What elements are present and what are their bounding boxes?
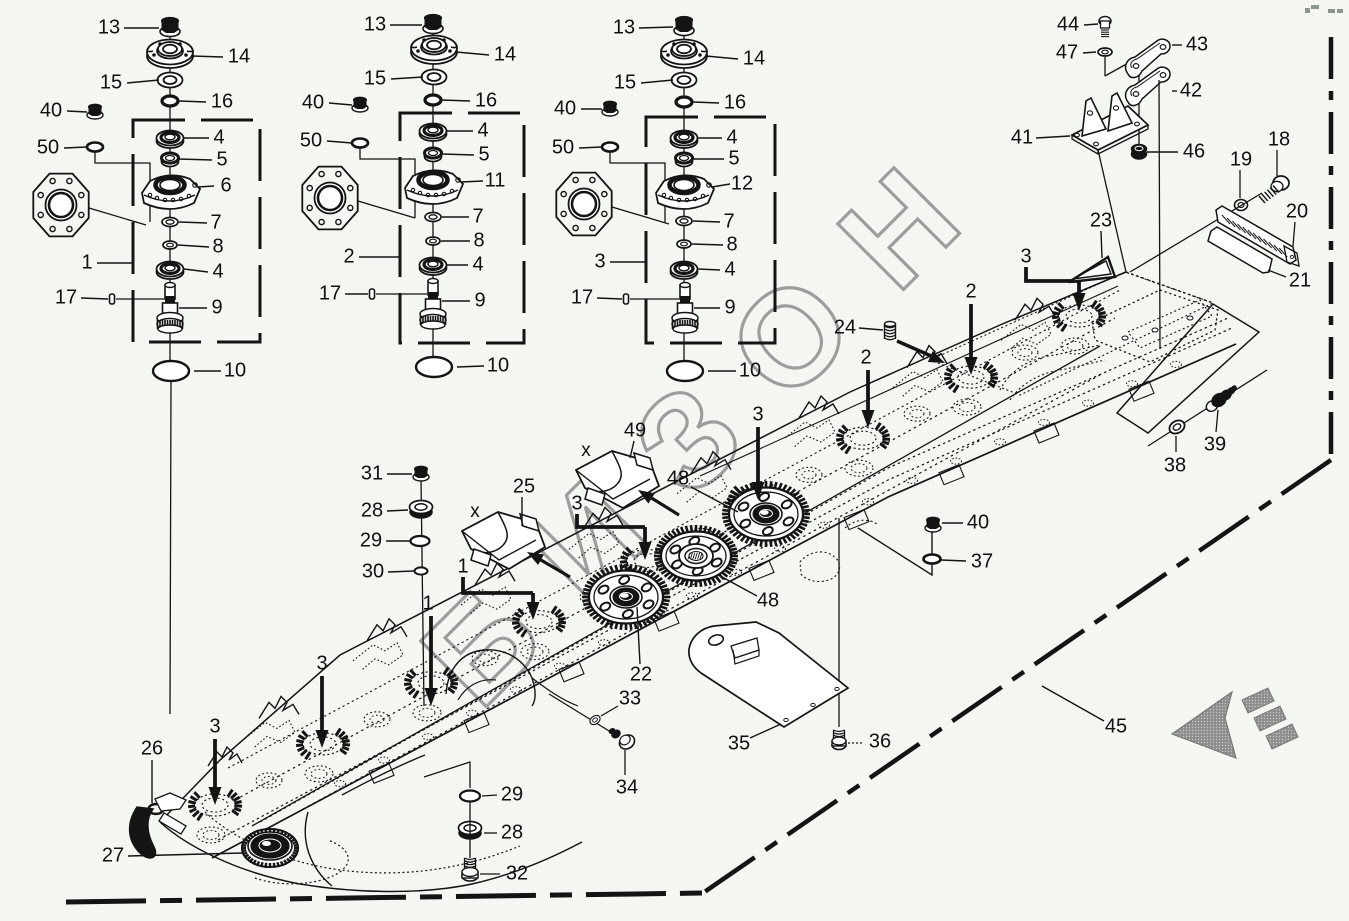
frame curve left [305, 812, 332, 886]
knife strip 21 [1208, 227, 1272, 273]
bearing 4 lower (assembly 2) [420, 261, 447, 275]
ring 8 (assembly 2) [426, 237, 440, 245]
svg-text:50: 50 [300, 129, 322, 151]
blade silhouette dotted 3 [461, 587, 511, 615]
svg-text:28: 28 [501, 821, 523, 843]
side shield plate (right end) [1117, 304, 1259, 433]
svg-text:3: 3 [571, 492, 582, 514]
ring 29 (lower) [460, 791, 480, 802]
skid strip section mark 20 [1171, 361, 1182, 367]
center axis line (assembly 2) [432, 31, 434, 377]
svg-text:4: 4 [212, 260, 223, 282]
svg-text:48: 48 [757, 589, 779, 611]
svg-text:13: 13 [98, 16, 120, 38]
svg-text:31: 31 [361, 462, 383, 484]
knife holder tab 5 [749, 560, 774, 580]
knife holder tab 6 [844, 510, 869, 530]
svg-text:37: 37 [971, 550, 993, 572]
svg-text:28: 28 [361, 499, 383, 521]
svg-text:20: 20 [1286, 200, 1308, 222]
svg-text:30: 30 [362, 560, 384, 582]
svg-text:16: 16 [211, 90, 233, 112]
blade silhouette dotted 4 [569, 531, 619, 559]
bar inner dotted line B [250, 375, 1100, 838]
svg-text:29: 29 [360, 529, 382, 551]
ring 29 [411, 536, 430, 546]
blade tab zigzag 5 [691, 452, 731, 474]
nut 40 (assembly 3) [602, 108, 618, 116]
seal ring 10 (assembly 3) [667, 361, 703, 381]
blade silhouette dotted 5 [677, 476, 727, 504]
washer 15 (assembly 3) [672, 73, 697, 88]
bar hole below spindle 7 [845, 460, 873, 476]
border dash-dot bottom [66, 893, 703, 902]
svg-text:13: 13 [613, 16, 635, 38]
blade tab zigzag 8 [1015, 298, 1055, 320]
svg-text:17: 17 [571, 286, 593, 308]
spindle position 2 on bar [303, 733, 343, 755]
svg-text:46: 46 [1183, 140, 1205, 162]
svg-text:2: 2 [343, 245, 354, 267]
bearing 4 upper (assembly 2) [420, 127, 447, 141]
bar right end inner plate [1092, 290, 1218, 362]
frame curve right [342, 755, 425, 795]
bolt 44 [1099, 17, 1111, 26]
flange hub 14 (assembly 2) [411, 40, 457, 64]
border dash-dot vertical right [1329, 37, 1334, 460]
svg-text:38: 38 [1164, 454, 1186, 476]
deflector dotted shapes [800, 552, 840, 582]
link 42 [1126, 67, 1170, 105]
skid strip section mark 2 [379, 757, 390, 763]
svg-text:10: 10 [739, 359, 761, 381]
bolt 34 [617, 732, 638, 752]
nut 13 (assembly 3) [674, 26, 694, 36]
bar hole below spindle 9 [1061, 338, 1089, 354]
bar hole below spindle 8 [953, 399, 981, 415]
bracket 41 base [1072, 106, 1148, 150]
mount flange (octagonal) (assembly 3) [556, 173, 611, 236]
blade tab zigzag 6 [799, 396, 839, 418]
flange hub 14 (assembly 3) [661, 44, 707, 68]
knife holder tab 3 [559, 662, 584, 682]
svg-text:15: 15 [100, 71, 122, 93]
bolt 32 [465, 858, 476, 860]
skid strip section mark 11 [775, 546, 786, 552]
skid strip section mark 19 [1127, 381, 1138, 387]
svg-text:15: 15 [614, 71, 636, 93]
svg-text:x: x [470, 501, 480, 522]
ring 50 (assembly 1) [87, 143, 103, 152]
svg-text:9: 9 [211, 296, 222, 318]
svg-text:4: 4 [477, 119, 488, 141]
cutter bar top edge [160, 272, 1126, 822]
ring 8 (assembly 3) [677, 240, 691, 248]
blade tab zigzag 3 [475, 563, 515, 585]
svg-text:5: 5 [728, 147, 739, 169]
ring 5 (assembly 1) [162, 157, 179, 167]
ring 16 (assembly 3) [676, 97, 692, 107]
bolt 18 [1273, 176, 1289, 190]
mount flange (octagonal) (assembly 2) [302, 167, 357, 230]
knife holder tab 8 [1034, 423, 1059, 443]
svg-text:10: 10 [487, 354, 509, 376]
svg-text:18: 18 [1268, 128, 1290, 150]
blade silhouette dotted 7 [893, 370, 943, 398]
nut 13 (assembly 1) [160, 27, 180, 37]
leader bar to ring 29 [424, 762, 470, 788]
knife holder tab 1 [369, 763, 394, 783]
svg-text:4: 4 [213, 126, 224, 148]
gear disc (lower-left, part 22/48) [662, 596, 670, 599]
washer 38 [1167, 418, 1187, 436]
skid strip section mark 7 [599, 640, 610, 646]
skid strip section mark 12 [819, 522, 830, 528]
leader bar to nut 40 [858, 528, 932, 575]
shoe dotted disc arc [255, 840, 348, 884]
svg-text:27: 27 [102, 844, 124, 866]
skid strip section mark 17 [1039, 419, 1050, 425]
bearing 4 lower (assembly 3) [671, 265, 698, 279]
nut 40 (assembly 1) [87, 111, 103, 119]
gear disc (upper-right, part 48) [802, 513, 810, 516]
svg-text:17: 17 [55, 286, 77, 308]
svg-text:15: 15 [364, 67, 386, 89]
blade silhouette dotted 1 [245, 720, 295, 748]
skid strip section mark 6 [555, 663, 566, 669]
spindle position 3 on bar [411, 672, 451, 694]
leader 50 to housing (assembly 3) [610, 152, 665, 222]
svg-text:9: 9 [724, 296, 735, 318]
bearing housing 12 (assembly 3) [656, 175, 714, 209]
gear disc (middle, part 48) [730, 555, 738, 558]
svg-text:33: 33 [619, 687, 641, 709]
roll pin 17 (assembly 3) [624, 294, 629, 304]
nut 40 (assembly 2) [352, 104, 368, 112]
spindle position 4 on bar [519, 611, 559, 633]
bar hole between spindles 2-3 [364, 712, 390, 727]
skid strip section mark 9 [687, 593, 698, 599]
link upper leader to bar [1159, 80, 1160, 349]
bar hole between spindles 3-4 [472, 651, 498, 666]
leader flange to housing (assembly 2) [358, 201, 415, 218]
leader 50 to housing (assembly 1) [95, 152, 150, 222]
gear 27 body [242, 829, 298, 867]
arrow 24 to spindle [897, 341, 938, 359]
svg-text:14: 14 [743, 47, 765, 69]
ring 7 (assembly 1) [162, 218, 178, 227]
leader flange to housing (assembly 1) [89, 208, 146, 225]
cutter bar skid strip mid line [260, 318, 1228, 822]
svg-text:50: 50 [552, 136, 574, 158]
svg-text:19: 19 [1230, 148, 1252, 170]
svg-text:40: 40 [40, 99, 62, 121]
bracket 41 gussets [1082, 98, 1106, 136]
washer 47 [1098, 48, 1112, 56]
svg-text:12: 12 [731, 172, 753, 194]
blade silhouette dotted 2 [353, 643, 403, 671]
blade tab zigzag 1 [259, 696, 299, 718]
svg-text:14: 14 [494, 43, 516, 65]
arrow to plate 49 [645, 494, 679, 515]
skid strip section mark 8 [643, 616, 654, 622]
knife holder tab 9 [1129, 381, 1154, 401]
spring pin 24 [885, 322, 896, 327]
svg-text:4: 4 [472, 253, 483, 275]
svg-text:3: 3 [752, 403, 763, 425]
svg-text:23: 23 [1090, 209, 1112, 231]
drop line to cutter bar (assembly 1) [170, 382, 171, 714]
svg-text:34: 34 [616, 776, 638, 798]
bolt 36 [834, 730, 845, 732]
svg-text:40: 40 [554, 97, 576, 119]
svg-text:3: 3 [594, 250, 605, 272]
flange hub 14 (assembly 1) [147, 44, 193, 68]
skid strip section mark 16 [995, 439, 1006, 445]
svg-text:8: 8 [212, 235, 223, 257]
center axis line (assembly 1) [169, 34, 171, 381]
blade silhouette dotted 6 [785, 420, 835, 448]
svg-text:45: 45 [1105, 715, 1127, 737]
bushing 28 (lower) [459, 827, 481, 839]
svg-text:42: 42 [1180, 79, 1202, 101]
svg-text:41: 41 [1011, 126, 1033, 148]
skid strip section mark 10 [731, 569, 742, 575]
svg-text:17: 17 [319, 282, 341, 304]
bar inner dotted line top [228, 290, 1120, 768]
leader line to bolt 36 [838, 518, 840, 727]
leader flange to housing (assembly 3) [612, 207, 669, 224]
dashed group box (assembly 1) [133, 120, 260, 342]
spindle position 7 on bar [843, 427, 883, 449]
ring 30 [415, 567, 428, 574]
bar hole between spindles 5-6 [688, 528, 714, 543]
svg-text:3: 3 [1020, 245, 1031, 267]
washer 33 [588, 714, 602, 727]
bearing 4 upper (assembly 3) [671, 134, 698, 148]
spindle position 1 on bar [195, 794, 235, 816]
link 43 [1126, 39, 1170, 77]
spindle position 5 on bar [627, 550, 667, 572]
svg-text:49: 49 [624, 419, 646, 441]
svg-text:22: 22 [630, 663, 652, 685]
svg-text:24: 24 [834, 316, 856, 338]
bar hole between spindles 8-9 [1012, 345, 1038, 360]
spindle position 9 on bar [1059, 305, 1099, 327]
svg-text:10: 10 [224, 359, 246, 381]
skid strip section mark 4 [467, 710, 478, 716]
pivot line 42-43 [1138, 57, 1140, 147]
bushing 28 [410, 506, 432, 518]
skid strip section mark 3 [423, 734, 434, 740]
washer 15 (assembly 2) [422, 70, 447, 85]
blade silhouette dotted 8 [1001, 322, 1051, 350]
skid strip section mark 5 [511, 687, 522, 693]
ring 5 (assembly 2) [425, 152, 442, 162]
svg-text:1: 1 [81, 251, 92, 273]
leader 33-34 [549, 694, 614, 734]
svg-text:3: 3 [209, 715, 220, 737]
grease fitting 39 [1204, 398, 1220, 413]
bar hole below spindle 4 [521, 644, 549, 660]
bar right end rounded dotted [1128, 300, 1212, 348]
washer 15 (assembly 1) [158, 73, 183, 88]
logo marks top right [1305, 5, 1343, 13]
bar hole below spindle 2 [305, 766, 333, 782]
line 44-47 down [1104, 57, 1106, 76]
knife holder tab 4 [654, 611, 679, 631]
washer 19 [1235, 200, 1248, 211]
svg-text:16: 16 [475, 89, 497, 111]
knife holder tab 2 [464, 713, 489, 733]
shaft with pinion 9 (assembly 2) [428, 281, 438, 295]
seal ring 10 (assembly 1) [153, 361, 189, 381]
bracket leader to bar [1098, 150, 1126, 272]
shaft with pinion 9 (assembly 3) [680, 285, 690, 299]
bar hole below spindle 3 [413, 705, 441, 721]
svg-text:44: 44 [1057, 13, 1079, 35]
svg-text:29: 29 [501, 783, 523, 805]
svg-text:48: 48 [667, 467, 689, 489]
cover plate 35 [689, 622, 848, 727]
shoe outer boundary [160, 822, 582, 892]
bar hole below spindle 1 [197, 827, 225, 843]
frame hump outline [446, 650, 535, 706]
svg-text:7: 7 [723, 210, 734, 232]
shoe inner dotted arc [205, 812, 520, 873]
axis line 38-39 [1148, 370, 1267, 446]
ring 50 (assembly 3) [602, 143, 618, 152]
svg-text:8: 8 [726, 233, 737, 255]
spindle position 6 on bar [735, 488, 775, 510]
ring 50 (assembly 2) [352, 139, 368, 148]
gear 27 teeth/hub [294, 847, 299, 849]
bar right end plate holes [1152, 328, 1158, 332]
shaft with pinion 9 (assembly 1) [165, 285, 175, 299]
bearing housing 6 (assembly 1) [142, 175, 200, 209]
skid 26 (black crescent) [130, 807, 156, 858]
roll pin 17 (assembly 2) [370, 289, 375, 299]
bearing 4 lower (assembly 1) [157, 265, 184, 279]
mount flange (octagonal) (assembly 1) [33, 174, 88, 237]
bar hole between spindles 6-7 [796, 467, 822, 482]
bar hole between spindles 4-5 [580, 590, 606, 605]
center axis line (assembly 3) [683, 33, 685, 381]
dashed group box (assembly 2) [400, 113, 524, 343]
blade tab zigzag at tip [208, 747, 242, 766]
cutter bar bottom edge [212, 344, 1236, 858]
leader 50 to housing (assembly 2) [360, 148, 415, 218]
svg-text:40: 40 [967, 511, 989, 533]
ring 7 (assembly 3) [676, 217, 692, 226]
bar right end fork dotted [1000, 345, 1100, 390]
svg-text:7: 7 [210, 211, 221, 233]
svg-text:8: 8 [473, 229, 484, 251]
bar inner dotted line A [235, 318, 1115, 800]
svg-text:13: 13 [364, 13, 386, 35]
svg-text:1: 1 [457, 555, 468, 577]
wear plate 25 [462, 512, 545, 569]
svg-text:x: x [581, 440, 591, 461]
bar front fold line [252, 346, 1100, 826]
stack line 29-32 [469, 801, 471, 858]
svg-text:35: 35 [728, 732, 750, 754]
skid strip section mark 13 [863, 499, 874, 505]
ring 16 (assembly 1) [162, 96, 178, 106]
svg-text:4: 4 [726, 126, 737, 148]
border dash-dot diagonal [703, 460, 1331, 893]
svg-text:16: 16 [724, 91, 746, 113]
svg-text:3: 3 [316, 652, 327, 674]
arrow to plate 25 [534, 556, 570, 577]
cutter bar top edge taper (dotted) [1126, 272, 1213, 303]
svg-text:50: 50 [37, 136, 59, 158]
roll pin 17 (assembly 1) [110, 294, 115, 304]
svg-text:2: 2 [860, 346, 871, 368]
svg-text:9: 9 [474, 289, 485, 311]
svg-text:40: 40 [302, 91, 324, 113]
bar hole between spindles 1-2 [256, 773, 282, 788]
ring 8 (assembly 1) [163, 241, 177, 249]
blade tab zigzag 7 [907, 346, 947, 368]
svg-text:39: 39 [1204, 433, 1226, 455]
nut 40 (bar) [925, 524, 941, 532]
dashed group box (assembly 3) [646, 117, 775, 343]
cutter bar skid strip upper line [218, 328, 1232, 840]
svg-text:1: 1 [422, 592, 433, 614]
knife holder tab 7 [939, 465, 964, 485]
skid strip section mark 18 [1083, 400, 1094, 406]
svg-text:7: 7 [472, 205, 483, 227]
svg-text:43: 43 [1186, 33, 1208, 55]
skid strip section mark 14 [907, 477, 918, 483]
svg-text:2: 2 [965, 280, 976, 302]
svg-text:26: 26 [141, 737, 163, 759]
axis line 18-19 to bar [1130, 193, 1262, 272]
svg-text:5: 5 [478, 143, 489, 165]
bar hole between spindles 7-8 [904, 406, 930, 421]
svg-text:25: 25 [513, 475, 535, 497]
knife strip 20 [1216, 206, 1296, 264]
bearing housing 11 (assembly 2) [405, 170, 463, 204]
blade tab zigzag 2 [367, 619, 407, 641]
svg-text:11: 11 [485, 169, 506, 191]
deflector 23 [1069, 257, 1115, 282]
ring 16 (assembly 2) [425, 95, 441, 105]
bar right end dotted outline [930, 272, 1213, 395]
ring 5 (assembly 3) [676, 157, 693, 167]
svg-text:14: 14 [228, 45, 250, 67]
svg-text:21: 21 [1289, 269, 1311, 291]
seal ring 10 (assembly 2) [416, 357, 452, 377]
spindle position 8 on bar [951, 366, 991, 388]
nut 31 [413, 473, 429, 481]
nut 13 (assembly 2) [423, 24, 443, 34]
ring 7 (assembly 2) [425, 213, 441, 222]
svg-text:47: 47 [1056, 41, 1078, 63]
skid strip section mark 1 [335, 781, 346, 787]
blade tab zigzag 4 [583, 507, 623, 529]
washer 37 [924, 555, 941, 564]
bearing 4 upper (assembly 1) [157, 134, 184, 148]
nut 46 [1132, 149, 1147, 159]
cutter bar top edge inner lip [700, 286, 1118, 476]
direction arrow [1172, 692, 1236, 758]
skid strip section mark 15 [951, 458, 962, 464]
svg-text:36: 36 [869, 730, 891, 752]
svg-text:4: 4 [724, 258, 735, 280]
svg-text:32: 32 [506, 862, 528, 884]
